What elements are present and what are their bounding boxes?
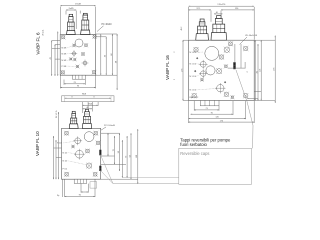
ext FL10 bo2 xyxy=(64,180,66,198)
conn FL10 right bottom xyxy=(101,178,138,180)
svg-text:a: a xyxy=(174,79,176,81)
svg-text:19x48: 19x48 xyxy=(75,4,82,6)
conn FL16 left bottom xyxy=(183,100,189,102)
ext FL16 b2 xyxy=(193,101,195,111)
dim FL6 left3 xyxy=(57,32,58,76)
svg-text:VABP FL 6: VABP FL 6 xyxy=(35,32,40,55)
reversible plug FL10 lower xyxy=(99,166,101,171)
port leader FL6 r1 xyxy=(68,46,73,48)
leader VD FL16 xyxy=(240,37,248,45)
dim FL10 right1 xyxy=(107,133,108,156)
conn FL16 right mid xyxy=(254,90,261,92)
port leader FL16 r2 xyxy=(197,63,201,65)
valve cap FL10 left xyxy=(69,111,78,128)
conn FL6 left c xyxy=(52,40,61,42)
dim FL6 left2 xyxy=(54,45,55,76)
hole FL6 a xyxy=(72,44,76,48)
ext FL10 t1 xyxy=(82,102,84,113)
callout box xyxy=(179,148,252,184)
valve cap FL16 left xyxy=(196,19,209,40)
svg-text:8: 8 xyxy=(72,97,73,99)
dim FL16 right seg xyxy=(221,8,254,10)
bolt FL10 top-right xyxy=(93,131,98,136)
port leader FL10 r2 xyxy=(69,153,76,154)
bottom flange FL16 xyxy=(200,101,219,106)
ext FL16 b6 xyxy=(253,101,255,123)
leader from FL10 plugs xyxy=(100,155,179,184)
mark FL16 d3 xyxy=(224,81,226,83)
svg-text:N 1/2: N 1/2 xyxy=(63,152,69,154)
hole FL6 g xyxy=(82,60,89,67)
svg-text:176x176: 176x176 xyxy=(217,4,226,6)
dim FL16 bottom3 xyxy=(189,117,246,119)
valve cap FL6 right xyxy=(81,13,90,34)
conn FL10 right mid2 xyxy=(101,163,126,165)
bolt FL16 bottom-right xyxy=(243,93,248,98)
bolt FL16 top-left xyxy=(193,47,198,52)
conn FL6 left d xyxy=(55,44,60,46)
ext line FL6 mid xyxy=(79,11,81,14)
gauge port FL10 large xyxy=(84,132,94,142)
dim FL10 bottom2 xyxy=(65,195,95,197)
dim FL16 left xyxy=(181,40,183,100)
dim FL16 bottom2 xyxy=(191,112,234,114)
hole FL6 b xyxy=(84,43,88,47)
port leader FL16 r3 xyxy=(197,74,201,76)
gauge port FL6 large xyxy=(75,39,83,47)
hole FL6 c xyxy=(71,50,77,56)
dim FL6 right2 xyxy=(105,37,107,75)
hole FL16 e xyxy=(224,64,228,68)
leader baseline FL10 dims xyxy=(122,177,179,179)
dim FL6 right3 xyxy=(111,34,113,75)
svg-text:P 1/2: P 1/2 xyxy=(63,169,69,171)
port leader FL6 r3 xyxy=(68,59,71,60)
valve cap FL10 right xyxy=(82,109,91,128)
conn FL10 right top xyxy=(101,132,120,134)
svg-text:N 3/8: N 3/8 xyxy=(62,53,68,55)
bolt FL6 bottom-right xyxy=(92,70,97,75)
svg-text:Rp: Rp xyxy=(57,195,59,197)
svg-text:N 3/8: N 3/8 xyxy=(62,60,68,62)
port leader FL6 r4 xyxy=(67,65,77,67)
hole FL16 k xyxy=(224,92,229,97)
dim FL10 right4 xyxy=(122,140,123,178)
svg-text:8: 8 xyxy=(94,97,95,99)
hole FL10 b xyxy=(96,141,101,146)
conn FL10 left b xyxy=(56,157,62,159)
mark FL16 d1 xyxy=(196,57,198,59)
hole FL6 f xyxy=(73,58,77,62)
ext line FL6 top-right xyxy=(95,7,97,35)
reversible plug FL10 upper xyxy=(99,150,101,156)
port leader FL16 r4 xyxy=(197,88,218,90)
bolt FL16 bottom-left xyxy=(192,93,197,98)
dim FL16 right2 xyxy=(256,44,258,101)
ext FL10 t3 xyxy=(91,102,93,112)
svg-text:fuori serbatoio: fuori serbatoio xyxy=(180,142,207,147)
strip side view FL6 xyxy=(62,96,114,102)
svg-text:VABP FL 16: VABP FL 16 xyxy=(165,55,170,80)
leader from FL16 plug xyxy=(236,70,253,148)
hole FL10 f xyxy=(71,145,75,149)
svg-text:2xØ5: 2xØ5 xyxy=(69,8,75,10)
conn FL6 right top xyxy=(96,33,118,35)
reversible plug FL16 xyxy=(233,62,235,69)
bolt FL6 top-right xyxy=(92,34,97,39)
conn FL16 right bottom xyxy=(254,100,275,102)
dim FL16 bottom1 xyxy=(194,108,219,110)
hole FL6 d xyxy=(81,52,85,56)
valve cap FL16 right xyxy=(211,16,227,41)
dim FL10 top2 xyxy=(83,107,93,109)
bolt FL10 bottom-left xyxy=(64,172,69,177)
dim FL10 left3 xyxy=(58,112,59,179)
dim FL16 left seg xyxy=(189,8,212,10)
mark FL16 d2 xyxy=(194,70,196,72)
hole FL16 f xyxy=(206,66,215,75)
dim FL16 bottom4 xyxy=(189,120,255,122)
port leader FL16 r1 xyxy=(197,51,204,53)
ext FL16 t1 xyxy=(210,10,212,21)
leader PC 40x40 xyxy=(97,26,104,32)
svg-text:N 1 1/4: N 1 1/4 xyxy=(190,76,197,78)
svg-text:N 1 1/4: N 1 1/4 xyxy=(190,90,197,92)
dim FL10 left1 xyxy=(53,136,54,179)
svg-text:96: 96 xyxy=(79,195,81,197)
dim FL16 right4 xyxy=(274,36,276,104)
svg-text:N 3/8: N 3/8 xyxy=(62,47,68,49)
svg-text:Reversible caps: Reversible caps xyxy=(180,151,209,156)
svg-text:23: 23 xyxy=(74,82,76,84)
svg-text:Ø140: Ø140 xyxy=(88,103,93,105)
ext FL16 b1 xyxy=(188,101,190,123)
svg-text:40: 40 xyxy=(216,12,218,14)
hole FL16 h xyxy=(199,69,207,77)
dim FL10 right3 xyxy=(118,133,120,171)
svg-text:N 1 1/4: N 1 1/4 xyxy=(190,52,197,54)
dim FL16 right3 xyxy=(260,40,262,100)
conn FL6 left a xyxy=(52,48,61,50)
svg-text:N 1/2: N 1/2 xyxy=(57,143,63,145)
dim FL6 left1 xyxy=(50,41,52,76)
dim FL6 right1 xyxy=(100,34,101,75)
svg-text:VD 40x2x18: VD 40x2x18 xyxy=(245,35,258,37)
ext FL16 b4 xyxy=(232,101,234,115)
body FL10 xyxy=(62,128,101,179)
bolt FL6 top-left xyxy=(61,35,66,40)
svg-text:VABP FL 10: VABP FL 10 xyxy=(35,131,40,156)
int dim FL16 b xyxy=(240,44,242,68)
svg-text:PC 40x40: PC 40x40 xyxy=(102,24,113,26)
dim FL10 bottom1 xyxy=(81,191,88,192)
ext FL6 bottom-r xyxy=(95,76,97,89)
dim FL10 right7 xyxy=(136,129,138,184)
hole FL10 d xyxy=(85,149,90,154)
leader PC FL10 xyxy=(101,127,107,131)
conn FL6 right a xyxy=(96,36,107,38)
hole FL10 a xyxy=(73,136,82,145)
conn FL16 left top xyxy=(183,39,189,41)
svg-text:96x8: 96x8 xyxy=(82,94,87,96)
bottom flange FL10 xyxy=(74,179,87,183)
conn FL16 plug xyxy=(228,67,246,69)
port leader FL10 r1 xyxy=(64,141,76,143)
svg-text:N 1 1/4: N 1 1/4 xyxy=(190,64,197,66)
ext line FL6 cap-r xyxy=(75,11,77,29)
bottom tab FL10 xyxy=(90,182,97,188)
ext FL10 t2 xyxy=(87,102,89,109)
port leader FL6 r2 xyxy=(68,53,73,55)
dim FL6 cap spacing xyxy=(66,8,76,11)
valve cap FL6 left xyxy=(67,14,76,34)
ext FL6 bottom-m1 xyxy=(63,80,65,85)
dim strip FL6 xyxy=(65,97,111,99)
hole FL16 d xyxy=(199,60,208,69)
conn FL10 left a xyxy=(54,147,62,149)
svg-text:73: 73 xyxy=(206,108,208,110)
dim FL6 right4 xyxy=(116,34,118,90)
conn FL6 left b xyxy=(55,58,60,60)
bolt FL6 bottom-left xyxy=(61,70,66,75)
ext FL16 top-right xyxy=(253,7,255,40)
ext line FL6 cap-l xyxy=(65,11,67,15)
conn FL6 right bottom xyxy=(96,74,118,76)
hole FL10 c xyxy=(74,149,85,160)
dim FL6 bottom2 xyxy=(60,86,95,88)
dim FL10 right2 xyxy=(113,136,115,164)
hole FL16 b xyxy=(228,41,233,46)
dim FL6 bottom1 xyxy=(64,82,85,84)
ext FL6 bottom-m2 xyxy=(84,80,86,85)
svg-text:FL 1/2 G: FL 1/2 G xyxy=(56,110,58,118)
svg-text:90: 90 xyxy=(211,112,213,114)
gauge port FL16 large xyxy=(205,46,219,60)
ext FL6 bottom-l xyxy=(59,76,61,89)
ext line FL6 top-left xyxy=(59,7,61,35)
conn FL16 right top xyxy=(254,39,275,41)
dim FL10 right5 xyxy=(126,136,128,178)
dim FL6 overall width xyxy=(60,4,95,7)
svg-text:Ø 5x11: Ø 5x11 xyxy=(43,30,45,36)
ext FL16 t2 xyxy=(220,10,222,15)
svg-text:5: 5 xyxy=(247,71,249,73)
port leader FL10 r3 xyxy=(69,161,87,165)
hole FL16 c xyxy=(219,54,224,59)
ext FL16 b5 xyxy=(245,101,247,119)
bolt FL10 bottom-right xyxy=(93,172,98,177)
hole FL16 a xyxy=(224,47,230,53)
hole FL10 e xyxy=(86,163,92,169)
svg-text:126: 126 xyxy=(216,117,219,119)
svg-text:45.2: 45.2 xyxy=(181,27,183,31)
dim FL16 overall xyxy=(189,4,255,7)
svg-text:176: 176 xyxy=(220,120,223,122)
svg-text:a: a xyxy=(174,51,176,53)
bolt FL10 top-left xyxy=(64,131,69,136)
dim FL10 right6 xyxy=(129,133,131,179)
conn FL16 right low xyxy=(247,98,258,100)
int dim FL16 a xyxy=(234,44,236,62)
svg-text:96: 96 xyxy=(77,86,79,88)
dim FL10 top1 xyxy=(83,103,99,105)
conn FL10 right mid1 xyxy=(101,155,115,157)
hole FL16 l xyxy=(230,95,234,99)
svg-text:N 1/2: N 1/2 xyxy=(63,161,69,163)
ext FL10 bo4 xyxy=(87,184,89,193)
hole FL16 j xyxy=(215,83,225,93)
svg-text:P 3/8: P 3/8 xyxy=(62,66,68,68)
dim FL16 right1 xyxy=(255,40,256,100)
dim FL16 center small xyxy=(214,12,223,14)
dim FL10 left2 xyxy=(55,140,56,179)
hole FL16 i xyxy=(200,78,204,82)
hole FL6 h xyxy=(76,65,80,69)
body FL16 xyxy=(189,40,255,100)
svg-text:PAV 1 1/2: PAV 1 1/2 xyxy=(190,96,200,99)
hole FL16 g xyxy=(216,68,222,74)
hole FL6 e xyxy=(69,57,73,61)
bottom flange FL6 xyxy=(72,75,85,79)
ext FL10 bo3 xyxy=(80,184,82,193)
ext FL10 bo5 xyxy=(94,180,96,198)
int dim FL16 c xyxy=(244,62,246,68)
ext FL16 b3 xyxy=(218,106,220,111)
body FL6 xyxy=(60,35,95,76)
bolt FL16 top-right xyxy=(243,46,248,51)
ext FL10 bo1 xyxy=(62,180,64,198)
ext FL16 top-left xyxy=(188,7,190,40)
ext FL10 t4 xyxy=(97,102,99,106)
